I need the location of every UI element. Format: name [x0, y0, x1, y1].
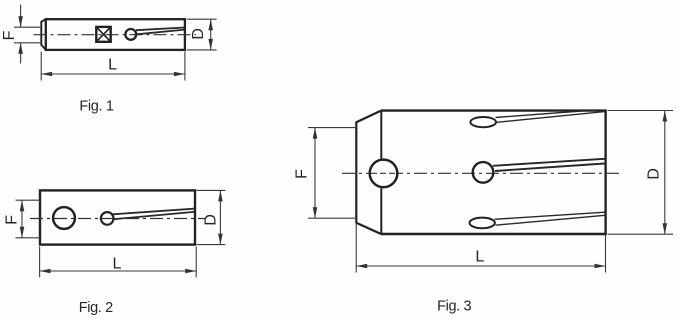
- svg-text:D: D: [646, 168, 663, 180]
- fig3 centerline: [342, 172, 621, 174]
- fig2 body: [40, 190, 195, 244]
- fig3 junction line lower segment: [380, 188, 382, 234]
- fig3 middle hole: [473, 162, 494, 183]
- fig3 dim F dimension line: [314, 128, 316, 219]
- fig1 dim D dimension line: [210, 19, 212, 50]
- svg-text:F: F: [1, 30, 18, 40]
- svg-text:F: F: [4, 215, 21, 225]
- fig1 square diagonal 2: [96, 27, 110, 42]
- fig3 bottom slot upper line: [495, 212, 606, 219]
- fig3 junction line upper segment: [380, 111, 382, 159]
- fig3 centerline through large hole: [371, 172, 396, 174]
- fig1 nose chamfered cap: [41, 19, 46, 50]
- fig1 square hole symbol: [96, 27, 110, 42]
- fig2 dim D extension lines: [197, 189, 226, 191]
- fig1 dim F dimension line with outside arrows: [20, 5, 22, 28]
- fig3 top slot lower line: [497, 112, 605, 123]
- fig2 dim L dimension line: [40, 270, 197, 272]
- fig3 large hole: [370, 160, 398, 188]
- fig3 dim L extension lines: [355, 224, 357, 273]
- fig3 bottom slot ellipse: [470, 218, 495, 229]
- fig2 saw slot lower line: [114, 212, 195, 219]
- fig3 nose chamfered left end: [356, 111, 381, 234]
- svg-text:L: L: [108, 56, 117, 73]
- fig1 circle hole: [125, 29, 136, 40]
- fig2 small hole: [101, 212, 114, 225]
- fig1 dim D extension lines: [187, 18, 217, 20]
- svg-text:L: L: [112, 256, 121, 273]
- fig2 dim D dimension line: [219, 190, 221, 244]
- fig2 large hole: [53, 207, 75, 229]
- svg-text:Fig. 1: Fig. 1: [79, 99, 113, 115]
- fig3 dim F extension lines: [308, 127, 358, 129]
- fig1 saw slot lower line: [137, 30, 185, 35]
- svg-text:L: L: [475, 248, 484, 265]
- fig3 dim D dimension line: [664, 111, 666, 235]
- fig1 square diagonal 1: [96, 27, 110, 42]
- fig3 top slot upper line: [496, 111, 589, 118]
- fig1 body: [46, 19, 185, 50]
- fig1 dim L dimension line: [41, 73, 185, 75]
- fig1 centerline: [34, 34, 197, 36]
- svg-text:D: D: [202, 214, 219, 226]
- svg-text:Fig. 3: Fig. 3: [437, 298, 471, 314]
- fig1 dim L extension lines: [40, 52, 42, 81]
- fig2 dim F dimension line: [21, 200, 23, 238]
- fig3 dim D extension lines: [608, 110, 674, 112]
- fig2 centerline: [30, 218, 206, 220]
- fig1 saw slot upper line: [136, 28, 185, 31]
- fig3 bottom slot lower line: [496, 215, 606, 225]
- svg-text:F: F: [294, 169, 311, 179]
- fig1 dim F extension lines: [14, 26, 41, 28]
- fig3 dim L dimension line: [356, 265, 605, 267]
- fig2 saw slot upper line: [113, 209, 194, 215]
- svg-text:Fig. 2: Fig. 2: [79, 300, 113, 316]
- fig3 middle slot upper line: [493, 159, 605, 166]
- fig3 body (top, right, bottom edges): [381, 111, 606, 234]
- fig3 top slot ellipse: [470, 117, 496, 127]
- svg-text:D: D: [190, 28, 207, 40]
- fig2 dim L extension lines: [39, 247, 41, 278]
- fig3 middle slot lower line: [495, 164, 605, 172]
- fig2 dim F extension lines: [16, 199, 41, 201]
